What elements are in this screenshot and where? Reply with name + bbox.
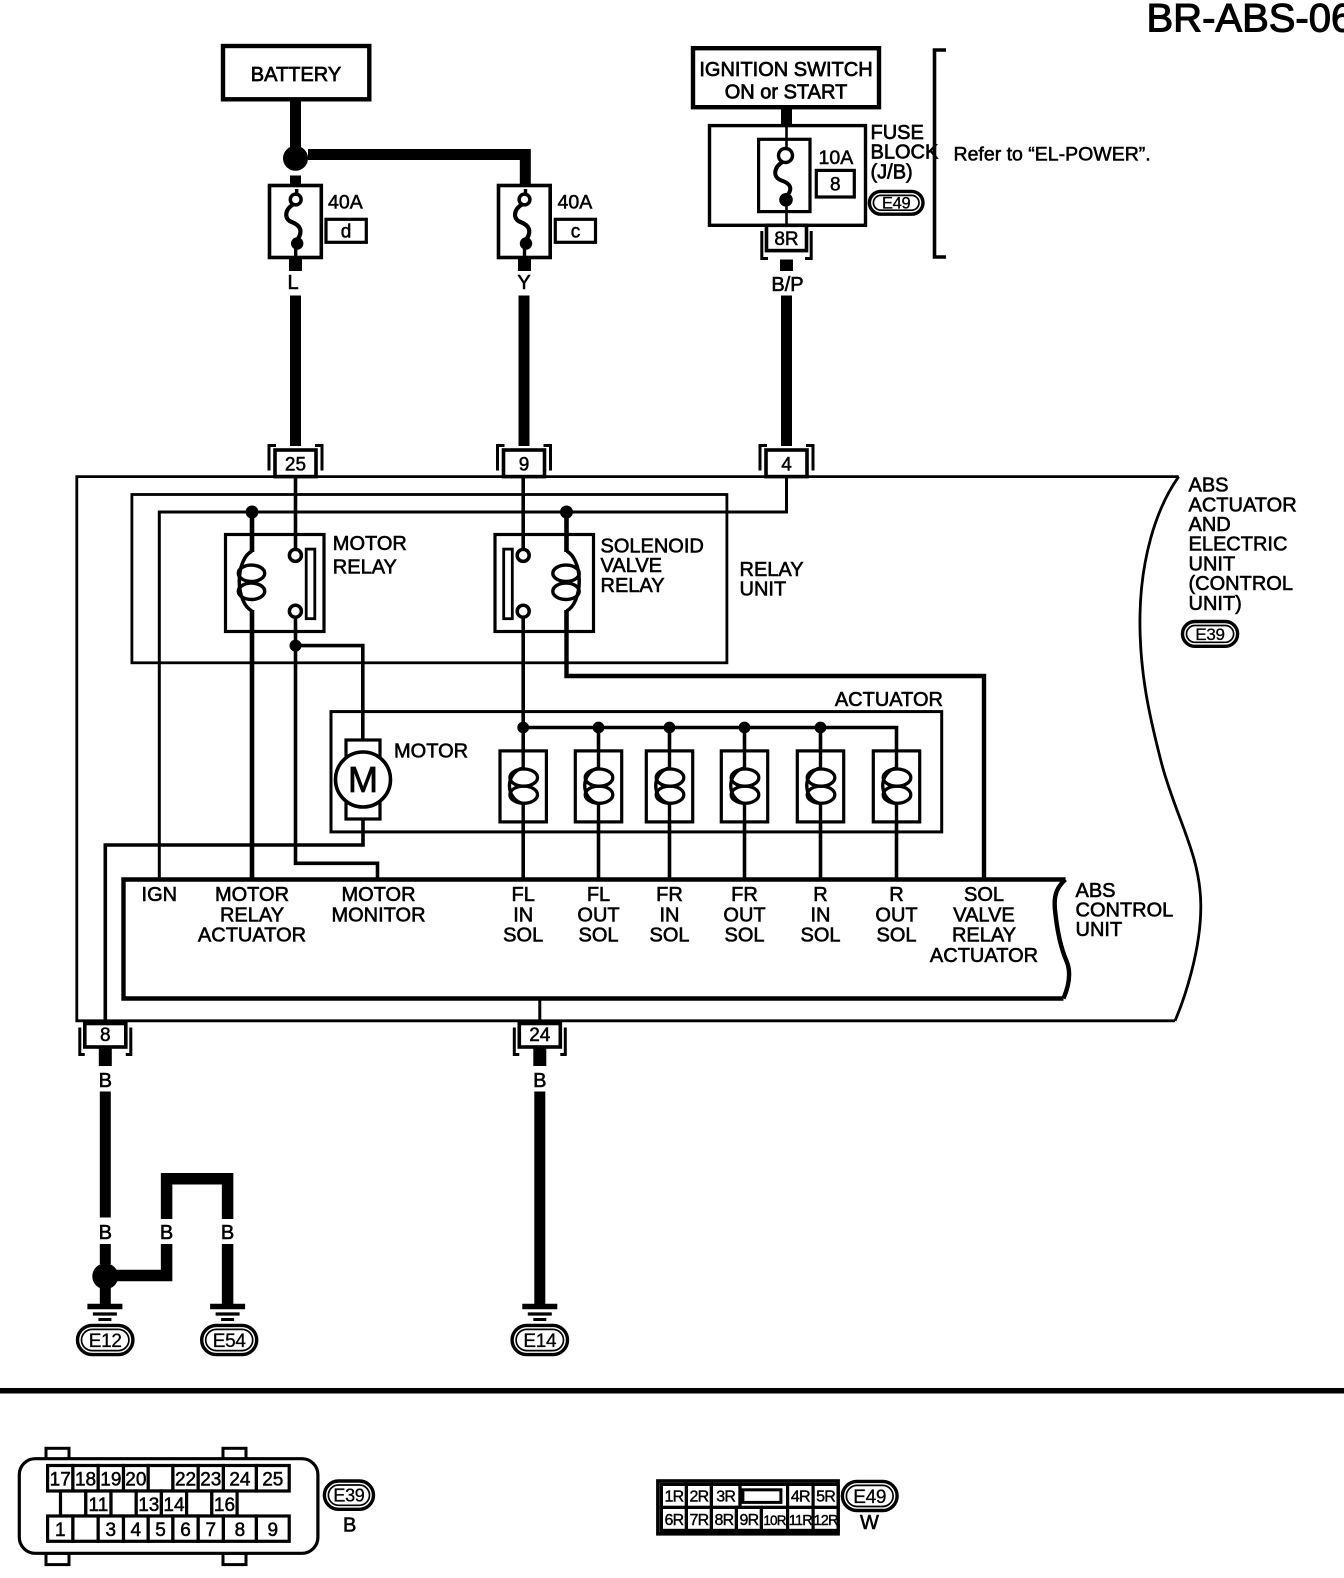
svg-text:MOTOR: MOTOR [394,741,468,763]
connector 8 [80,1028,85,1055]
svg-text:OUT: OUT [723,904,765,926]
wire solenoid relay coil to sol valve relay actuator pin [567,632,985,880]
wire solenoid to control unit [743,822,747,880]
svg-text:UNIT: UNIT [740,579,787,601]
svg-text:4: 4 [781,454,792,475]
connector E39 housing [46,1448,69,1459]
connector 9 [498,446,505,471]
svg-text:RELAY: RELAY [740,559,804,581]
svg-text:FL: FL [512,884,535,906]
wire motor to connector 8 [105,819,363,1021]
svg-text:25: 25 [285,454,306,475]
svg-text:B/P: B/P [771,274,803,296]
actuator box [331,712,942,832]
svg-text:RELAY: RELAY [601,575,665,597]
svg-text:8R: 8R [774,229,798,250]
ignition switch [693,48,879,107]
svg-text:B: B [221,1222,234,1244]
svg-text:7: 7 [206,1520,217,1541]
svg-text:B: B [99,1222,112,1244]
wire node to motor [296,646,363,740]
svg-text:9R: 9R [739,1512,758,1529]
connector id E49 [842,1481,897,1510]
svg-text:4: 4 [131,1520,142,1541]
wire feed to solenoid [743,728,747,752]
solenoid FR IN [646,751,692,822]
svg-text:R: R [889,884,903,906]
wire solenoid to control unit [668,822,672,880]
svg-text:8: 8 [830,175,841,196]
wire solenoid to control unit [819,822,823,880]
svg-text:22: 22 [175,1469,196,1490]
node solenoid feed [739,722,751,734]
svg-text:AND: AND [1189,514,1231,536]
svg-text:IGNITION SWITCH: IGNITION SWITCH [699,59,872,81]
svg-text:24: 24 [529,1025,551,1046]
svg-text:9: 9 [519,454,530,475]
svg-text:IN: IN [660,904,680,926]
node battery junction [283,146,308,171]
svg-text:ACTUATOR: ACTUATOR [198,925,306,947]
wire feed to solenoid [597,728,601,752]
svg-text:12R: 12R [813,1513,838,1529]
svg-text:B: B [533,1070,546,1092]
svg-text:6: 6 [180,1520,191,1541]
svg-text:R: R [813,884,827,906]
svg-text:FR: FR [731,884,758,906]
svg-text:ACTUATOR: ACTUATOR [930,945,1038,967]
svg-text:ACTUATOR: ACTUATOR [835,689,943,711]
svg-text:18: 18 [75,1469,96,1490]
connector 24 [514,1028,519,1055]
svg-text:ELECTRIC: ELECTRIC [1189,534,1288,556]
wire stub below fuse d [289,258,302,272]
fuse block J/B [710,126,866,226]
motor relay [250,512,255,535]
svg-text:10R: 10R [763,1513,786,1528]
svg-text:IGN: IGN [142,884,178,906]
wire solenoid feed bus [523,728,896,752]
connector 8R [767,225,807,250]
svg-text:SOL: SOL [724,925,764,947]
svg-text:E39: E39 [333,1486,364,1506]
wire ground node to E54 branch [105,1244,166,1276]
svg-text:1R: 1R [664,1489,683,1506]
svg-text:RELAY: RELAY [952,925,1016,947]
svg-text:SOL: SOL [876,925,916,947]
E49 pin row bottom [661,1507,686,1530]
fusible link c 40A [499,186,551,258]
connector 25 [269,446,276,471]
svg-text:SOL: SOL [964,884,1004,906]
fusible link d 40A [270,186,322,258]
svg-text:ON or START: ON or START [725,82,848,104]
wire connector 4 to IGN [159,477,786,880]
separator line [0,1388,1344,1394]
svg-text:6R: 6R [664,1512,683,1529]
svg-text:B: B [160,1222,173,1244]
svg-text:OUT: OUT [875,904,917,926]
solenoid R OUT [873,751,919,822]
svg-text:OUT: OUT [577,904,619,926]
svg-text:E54: E54 [213,1331,247,1352]
svg-text:d: d [341,222,352,243]
node solenoid feed [664,722,676,734]
svg-text:E12: E12 [89,1331,122,1352]
wire L to connector 25 [290,296,301,447]
fuse id box c [555,219,595,242]
svg-text:MOTOR: MOTOR [341,884,415,906]
svg-text:25: 25 [262,1469,283,1490]
svg-text:BLOCK: BLOCK [871,142,939,164]
svg-text:5R: 5R [816,1489,835,1506]
svg-text:B: B [343,1515,356,1537]
svg-text:SOLENOID: SOLENOID [601,536,704,558]
bracket for fuse block note [935,50,947,257]
svg-text:8R: 8R [714,1512,733,1529]
svg-text:9: 9 [268,1520,279,1541]
svg-text:UNIT): UNIT) [1189,593,1242,615]
svg-text:11: 11 [89,1495,109,1516]
svg-text:SOL: SOL [503,925,543,947]
svg-text:SOL: SOL [649,925,689,947]
ground E14 symbol [522,1304,557,1310]
svg-text:17: 17 [50,1469,71,1490]
fuse 10A in fuse block [759,139,810,211]
ground id E12 [78,1325,133,1354]
svg-text:19: 19 [100,1469,121,1490]
node solenoid valve relay coil junction [560,506,573,519]
node motor relay coil junction [246,506,259,519]
ground E12 symbol [87,1304,122,1310]
svg-text:4R: 4R [791,1489,810,1506]
svg-text:40A: 40A [558,192,593,214]
svg-text:ABS: ABS [1189,475,1229,497]
svg-text:RELAY: RELAY [220,904,284,926]
wire solenoid to control unit [521,822,525,880]
node ground junction [92,1263,118,1289]
svg-text:5: 5 [155,1520,166,1541]
svg-text:L: L [287,272,298,294]
svg-text:VALVE: VALVE [953,904,1015,926]
fuse number box 8 [816,170,854,197]
svg-text:IN: IN [513,904,533,926]
node solenoid feed [815,722,827,734]
E39 pin row middle [61,1491,86,1516]
wire stub below 8R [780,260,793,272]
wire connector 24 to ground E14 [534,1092,545,1305]
ground E54 symbol [210,1304,245,1310]
svg-text:10A: 10A [819,147,854,169]
svg-text:8: 8 [235,1520,246,1541]
svg-text:FL: FL [587,884,610,906]
svg-text:VALVE: VALVE [601,555,663,577]
wire branch loop to E54 [167,1179,228,1219]
wire node to motor monitor [296,646,378,880]
svg-text:SOL: SOL [578,925,618,947]
svg-text:7R: 7R [689,1512,708,1529]
svg-text:8: 8 [100,1025,111,1046]
E39 pin row bottom [48,1516,73,1541]
svg-text:FR: FR [656,884,683,906]
svg-text:BATTERY: BATTERY [251,64,341,86]
wire stub below fuse c [518,258,531,272]
connector 4 [760,446,767,471]
node solenoid feed [517,722,529,734]
solenoid valve relay [564,512,569,535]
wire control unit to connector 24 [538,999,541,1024]
svg-text:(J/B): (J/B) [871,161,913,183]
svg-text:13: 13 [138,1495,159,1516]
solenoid R IN [797,751,843,822]
wire feed to solenoid [668,728,672,752]
svg-text:B: B [99,1070,112,1092]
relay unit box [132,495,727,663]
wire motor relay coil to actuator pin [250,632,255,880]
svg-text:W: W [860,1512,879,1534]
svg-text:c: c [571,222,581,243]
ground id E54 [202,1325,257,1354]
svg-text:2R: 2R [689,1489,708,1506]
svg-text:3R: 3R [716,1489,735,1506]
svg-text:(CONTROL: (CONTROL [1189,573,1293,595]
battery [223,46,369,99]
svg-text:Refer to “EL-POWER”.: Refer to “EL-POWER”. [954,144,1151,166]
svg-text:20: 20 [125,1469,146,1490]
wire solenoid to control unit [895,822,899,880]
svg-text:40A: 40A [328,192,363,214]
wire junction to fuse d [290,176,301,186]
svg-text:16: 16 [214,1495,235,1516]
node solenoid feed [593,722,605,734]
motor [346,740,380,819]
connector E39 oval [1183,622,1238,647]
ABS control unit box [124,880,1066,999]
E49 pin row top [661,1484,686,1507]
svg-text:FUSE: FUSE [871,122,924,144]
svg-text:MOTOR: MOTOR [215,884,289,906]
wire solenoid relay contact to solenoids [521,617,525,752]
svg-text:E39: E39 [1195,625,1224,644]
solenoid FL OUT [575,751,621,822]
svg-text:UNIT: UNIT [1189,553,1236,575]
wire stub to ground E12 [100,1288,111,1304]
E49 keyway [743,1490,781,1503]
svg-text:E49: E49 [882,195,911,213]
svg-text:1: 1 [55,1520,66,1541]
svg-text:MOTOR: MOTOR [333,533,407,555]
wire solenoid to control unit [597,822,601,880]
wire connector 8 ground [100,1092,111,1218]
svg-text:E14: E14 [523,1331,557,1352]
wire feed to solenoid [819,728,823,752]
wire B/P to connector 4 [781,296,792,447]
svg-text:23: 23 [200,1469,221,1490]
solenoid FL IN [500,751,546,822]
ground id E14 [512,1325,567,1354]
svg-text:MONITOR: MONITOR [331,904,425,926]
svg-text:UNIT: UNIT [1076,919,1123,941]
svg-text:IN: IN [811,904,831,926]
svg-text:11R: 11R [789,1513,812,1529]
wire to ground E54 [222,1244,234,1304]
wire branch junction to fuse c [308,155,525,186]
node motor relay output [290,640,302,652]
svg-text:Y: Y [517,272,530,294]
wire motor relay contact to node [294,617,298,642]
connector E49 oval at fuse block [869,191,923,214]
fuse id box d [326,219,366,242]
wire battery to junction [290,99,301,147]
svg-text:24: 24 [229,1469,251,1490]
solenoid FR OUT [721,751,767,822]
svg-text:E49: E49 [853,1487,886,1508]
svg-text:RELAY: RELAY [333,557,397,579]
E39 pin row top [48,1466,73,1492]
connector E49 housing [658,1481,838,1534]
svg-text:3: 3 [106,1520,117,1541]
wire ignition to fuse block [781,107,792,126]
ABS actuator and electric unit box [77,477,1179,1021]
connector id E39 [324,1481,373,1509]
svg-text:BR-ABS-06: BR-ABS-06 [1147,0,1344,41]
svg-text:SOL: SOL [800,925,840,947]
wire B to ground node [100,1244,111,1264]
svg-text:ACTUATOR: ACTUATOR [1189,494,1297,516]
svg-text:M: M [348,759,378,800]
wire Y to connector 9 [519,296,530,447]
svg-text:14: 14 [163,1495,185,1516]
